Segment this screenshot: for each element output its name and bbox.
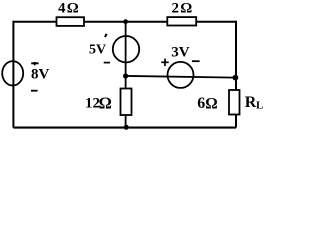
wire middle branch (5V / 12 ohm) <box>125 22 127 128</box>
svg-text:L: L <box>256 99 263 111</box>
polarity minus of 8V <box>31 90 38 92</box>
resistor 4 ohm <box>57 17 85 26</box>
resistor 2 ohm <box>167 17 196 25</box>
svg-text:Ω: Ω <box>99 94 112 113</box>
label 8V value <box>31 67 50 83</box>
svg-text:4Ω: 4Ω <box>58 1 80 17</box>
junction node bottom (12 ohm / bottom wire) <box>124 125 129 130</box>
resistor RL <box>229 90 240 115</box>
label 2 ohm value <box>172 1 194 17</box>
polarity plus tick of 5V <box>105 34 107 37</box>
wire left <box>12 21 14 128</box>
svg-text:5V: 5V <box>89 43 106 58</box>
polarity plus of 3V <box>161 59 168 67</box>
svg-text:Ω: Ω <box>205 96 217 113</box>
wire middle horizontal (3V branch) <box>126 76 236 78</box>
junction node middle (5V branch / 3V branch) <box>123 73 128 78</box>
svg-text:3V: 3V <box>171 44 190 60</box>
voltage source U2 5V <box>113 36 139 62</box>
label 12 ohm value <box>85 94 112 113</box>
voltage source U1 8V <box>2 61 23 85</box>
label 3V value <box>171 44 190 60</box>
svg-text:2Ω: 2Ω <box>172 1 194 17</box>
wire right <box>235 21 237 128</box>
label RL reference <box>245 94 264 111</box>
polarity plus of 8V <box>31 62 38 65</box>
label 5V value <box>89 43 106 58</box>
wire top <box>13 21 236 23</box>
polarity minus of 5V <box>104 62 110 64</box>
svg-text:8V: 8V <box>31 67 50 83</box>
svg-text:R: R <box>245 94 257 111</box>
junction node right (3V branch / right wire) <box>233 75 239 81</box>
polarity minus of 3V <box>192 60 200 62</box>
svg-text:6: 6 <box>197 95 205 112</box>
voltage source U3 3V <box>168 62 194 88</box>
label 4 ohm value <box>58 1 80 17</box>
wire bottom <box>13 127 236 129</box>
resistor 12 ohm <box>121 89 132 116</box>
label 6 ohm value <box>197 95 217 113</box>
junction node top (5V branch / top wire) <box>123 19 128 24</box>
